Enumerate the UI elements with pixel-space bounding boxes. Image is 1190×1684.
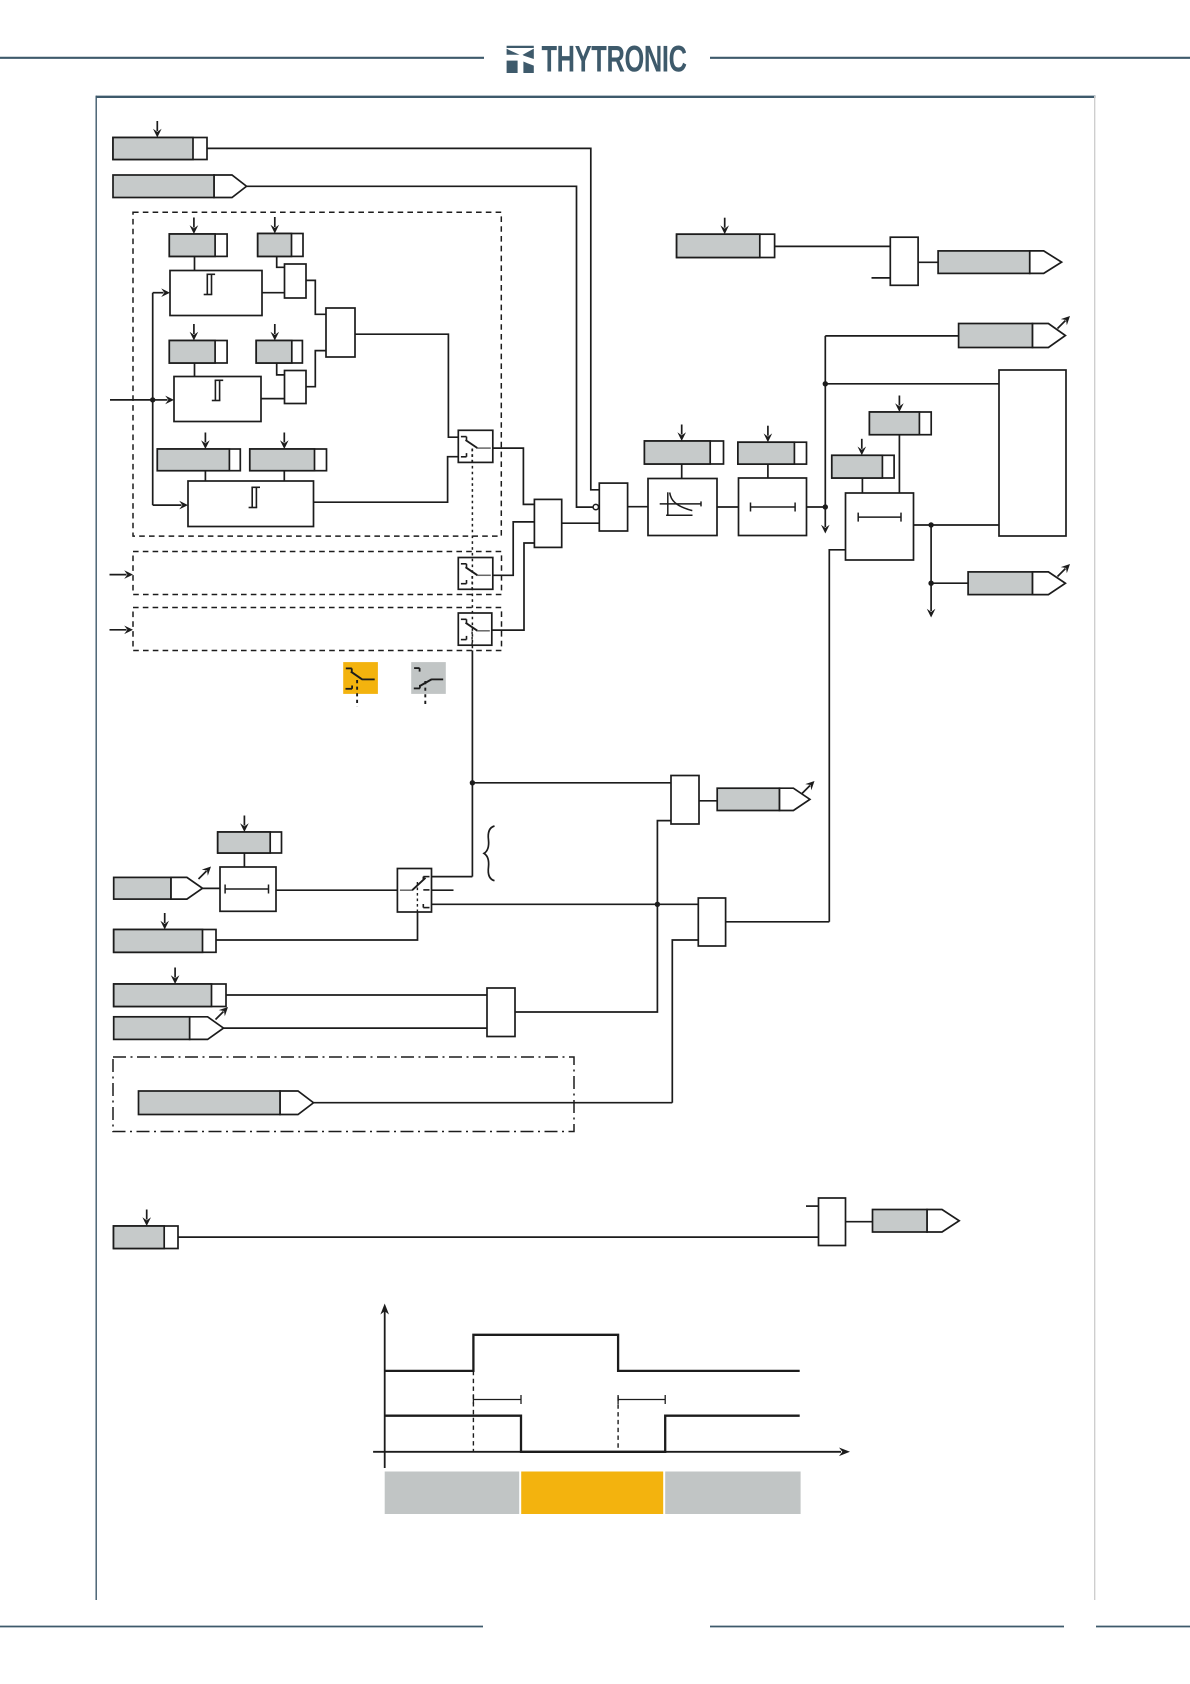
arrow into U1 [153, 288, 170, 297]
dash-dot group box [113, 1057, 574, 1132]
comparator U1 (hysteresis) [170, 271, 262, 316]
junction SW4/NOT [655, 902, 660, 907]
wire N1 to inverse-time block [628, 506, 648, 508]
wire U3 out to switch SW1 [314, 457, 459, 503]
setting box S1 (top left) [113, 121, 207, 160]
definite-time block T1 [739, 478, 807, 536]
gate G2 [285, 371, 307, 404]
NAND gate N1 [599, 483, 627, 531]
input tag IN1 [114, 863, 214, 899]
wire F5 down [243, 853, 245, 867]
comparator U2 (hysteresis) [174, 377, 261, 422]
timing bar orange [521, 1472, 663, 1515]
Thytronic logo text [542, 38, 687, 80]
NOT gate N2 [671, 776, 699, 825]
junction trip tag [928, 581, 933, 586]
setting box C1 [114, 968, 226, 1007]
selector switch SW3 [458, 613, 492, 646]
input spine vertical [152, 293, 154, 505]
junction on input spine [150, 397, 155, 402]
wire G1 to block SB [775, 245, 891, 247]
selector switch SW2 [458, 558, 493, 590]
junction T1 out [823, 504, 828, 509]
brace [484, 826, 495, 881]
wire SB to tag [918, 261, 938, 263]
block SB [890, 237, 918, 285]
dashed group box 1 [133, 212, 501, 536]
setting box B1 [258, 217, 303, 256]
wire D1 to AND3 [224, 1027, 488, 1029]
input stub line [110, 399, 153, 401]
setting box A1 [169, 218, 227, 257]
timing measure 1 [473, 1395, 521, 1404]
stub into block SB [872, 277, 891, 279]
timing measure 2 [618, 1395, 665, 1404]
wire OR1 to switch SW1 [355, 334, 458, 437]
wire B2 to gate G2 [277, 363, 285, 375]
setting box A2 [169, 324, 227, 363]
setting box A3 [157, 433, 240, 471]
arrow into U2 [153, 396, 174, 405]
start bus vertical [824, 336, 826, 507]
wire F1 down [681, 464, 683, 479]
frame left border [95, 96, 97, 1600]
comparator U3 (hysteresis) [188, 481, 314, 527]
selector switch SW1 [458, 430, 493, 463]
wire SW1 to OR2 input 1 [493, 448, 535, 504]
wire T5 to switch SW4 [276, 889, 397, 891]
wire U1 out to gate G1 [262, 292, 285, 294]
dashed group box 3 [133, 608, 502, 651]
wire T1 output to junction [807, 506, 826, 508]
input tag D2 (in dash-dot box) [139, 1091, 314, 1115]
footer rule left [0, 1626, 483, 1628]
wire trip block out [914, 524, 1000, 526]
wire junction up to NOT input [657, 821, 671, 905]
timing bar gray right [665, 1472, 800, 1515]
wire A2 to comparator U2 [194, 363, 196, 377]
AND gate A3 [487, 988, 515, 1037]
wire AND3 up to junction [515, 904, 657, 1012]
junction trip out [928, 522, 933, 527]
setting box F1 [644, 425, 723, 465]
wire SW2 to OR2 input 2 [493, 522, 535, 575]
timing dashed edge 2 [617, 1397, 619, 1452]
setting box B3 [250, 433, 327, 471]
trip block B1 [846, 493, 914, 560]
setting box B5 [114, 913, 216, 952]
wire SW4 out to AND2 [432, 903, 699, 905]
wire IN1 to timer T5 [203, 887, 221, 889]
wire D2 to AND2 [312, 1102, 672, 1104]
wire to trip tag [931, 582, 968, 584]
wire K1 to timer T1 [717, 506, 739, 508]
wire A2 out to trip reset [726, 921, 830, 923]
setting box G1 [677, 218, 775, 258]
wire B2 to tag [846, 1221, 873, 1223]
wire start bus to start tag [825, 335, 958, 337]
setting box F2 [738, 426, 807, 464]
footer rule middle [710, 1626, 1064, 1628]
wire A3 to comparator U3 [204, 471, 206, 481]
arrow down from trip junction [927, 583, 936, 617]
footer rule right [1096, 1626, 1190, 1628]
wire S2 to NAND inverted input [246, 186, 593, 507]
junction start bus [823, 381, 828, 386]
setting box H1 [869, 396, 931, 435]
control line solid segment [471, 650, 473, 876]
wire H2 down [861, 478, 863, 493]
setting box F5 [218, 816, 282, 854]
OR gate OR2 [534, 499, 561, 547]
control wire B5 to SW4 [216, 912, 418, 940]
frame right border [1094, 96, 1096, 1600]
stub into block B2 [806, 1205, 819, 1207]
arrow down from T1 junction [821, 507, 830, 534]
output tag START [959, 313, 1073, 348]
dashed group box 2 [133, 552, 502, 595]
block B2 [819, 1198, 846, 1246]
junction control/NOT [470, 780, 475, 785]
timing signal 1 [385, 1335, 800, 1371]
legend icon orange (switch pos 1) [343, 662, 378, 706]
inverse-time block K1 [648, 479, 717, 536]
trip out vertical [930, 525, 932, 583]
wire B1 to gate G1 [277, 256, 285, 267]
wire G1 to OR1 input 1 [306, 280, 326, 314]
wire S1 to NAND input A [207, 148, 599, 489]
wire reset into trip block [829, 550, 845, 922]
selector switch SW4 [397, 869, 431, 913]
wire B3 to comparator U3 [283, 471, 285, 481]
wire G2 to OR1 input 2 [306, 351, 326, 387]
legend icon gray (switch pos 2) [411, 662, 446, 704]
output tag 4 [717, 778, 817, 811]
frame top border [96, 96, 1096, 98]
timing x-axis [373, 1448, 850, 1457]
Thytronic logo icon [507, 46, 534, 73]
wire start bus to register block [825, 383, 999, 385]
wire U2 out to gate G2 [261, 398, 285, 400]
wire A1 to comparator U1 [194, 256, 196, 270]
setting box B2 [256, 324, 302, 363]
timing y-axis [380, 1304, 389, 1469]
header rule left [0, 57, 484, 59]
input tag S2 (pointed) [113, 175, 247, 198]
wire OR2 to NAND input C [562, 522, 600, 524]
arrow into group 2 [110, 570, 134, 579]
gate G1 [285, 264, 307, 298]
arrow into U3 [153, 501, 188, 510]
arrow into group 3 [110, 626, 134, 635]
output tag 3 [938, 251, 1062, 274]
timing dashed edge 1 [472, 1371, 474, 1452]
wire NOT to tag [699, 800, 717, 802]
input tag D1 [114, 1004, 231, 1039]
AND gate A2 [698, 898, 725, 946]
register block R1 [999, 370, 1066, 536]
stub from SW4 [432, 889, 454, 891]
OR gate OR1 [326, 308, 355, 357]
setting box H2 [832, 439, 894, 478]
wire F2 down [767, 464, 769, 478]
header rule right [710, 57, 1190, 59]
timer block T5 [220, 867, 276, 911]
wire C1 to AND3 [226, 994, 487, 996]
wire ctl junction to NOT [472, 782, 671, 784]
wire SW3 to OR2 input 3 [492, 543, 535, 630]
output tag 5 [873, 1210, 960, 1233]
timing signal 2 [385, 1416, 800, 1452]
NAND inverter bubble [593, 504, 598, 509]
timing bar gray left [385, 1472, 520, 1515]
setting box E1 [114, 1210, 179, 1249]
wire dashdot tag up to A2 [672, 940, 698, 1103]
wire H1 down [898, 435, 900, 493]
dotted control line [471, 449, 473, 651]
svg-text:THYTRONIC: THYTRONIC [542, 38, 687, 80]
control line to switch SW4 [432, 876, 473, 878]
output tag TRIP [968, 561, 1073, 595]
wire E1 to block B2 [178, 1236, 819, 1238]
